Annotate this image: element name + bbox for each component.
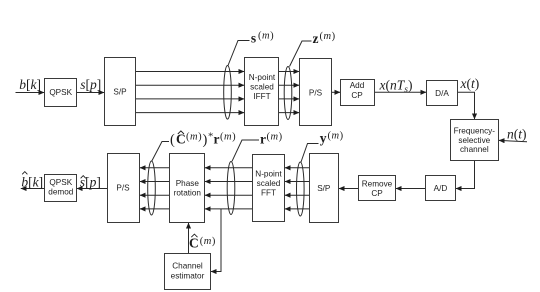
svg-text:S/P: S/P [113,88,127,97]
block P/S rx [108,154,140,223]
wire bus FFT to Phase rotation line 4 [205,208,253,210]
svg-text:rotation: rotation [174,188,202,197]
wire bus S/P to FFT line 4 [285,208,310,210]
block A/D [426,176,456,201]
svg-text:s[p]: s[p] [80,175,101,190]
svg-text:S/P: S/P [317,184,331,193]
wire bus tx line 4 [136,112,245,114]
wire bus tx line 1 [136,71,245,73]
wire bus IFFT to P/S line 2 [279,84,300,86]
wire A/D to Remove CP [396,188,426,190]
svg-text:Channel: Channel [172,262,203,271]
svg-text:(m): (m) [200,236,216,247]
ellipse bus rx3 [148,161,156,215]
ellipse bus tx1 [224,66,232,120]
wire bus tx line 2 [136,84,245,86]
wire input b[k] to QPSK [16,92,45,94]
svg-text:scaled: scaled [257,179,281,188]
wire tap to channel estimator [211,209,221,272]
wire noise n(t) into channel [499,140,527,141]
wire bus FFT to Phase rotation line 2 [205,181,253,183]
wire bus S/P to FFT line 2 [285,181,310,183]
leader line y(m) [301,144,319,163]
block P/S tx [300,59,332,126]
wire bus Phase rotation to P/S line 4 [140,208,170,210]
svg-text:x(nTs): x(nTs) [379,78,413,96]
svg-text:Add: Add [350,81,365,90]
svg-text:CP: CP [371,189,383,198]
ellipse bus rx1 [297,162,305,216]
svg-text:D/A: D/A [435,89,449,98]
wire bus Phase rotation to P/S line 2 [140,181,170,183]
svg-text:s[p]: s[p] [80,77,101,92]
svg-text:n(t): n(t) [507,127,527,142]
svg-text:(m): (m) [258,31,274,42]
wire P/S to Add CP [332,91,341,93]
svg-text:N-point: N-point [255,170,282,179]
wire channel to A/D [456,161,475,189]
wire QPSK to S/P [77,92,105,94]
svg-text:(m): (m) [267,132,283,143]
wire D/A to channel [458,92,475,119]
svg-text:z: z [313,31,319,46]
svg-text:QPSK: QPSK [49,88,72,97]
svg-text:s: s [251,30,256,45]
svg-text:b[k]: b[k] [19,77,41,92]
block QPSK [45,79,77,107]
leader line z(m) [290,41,312,67]
wire bus Phase rotation to P/S line 1 [140,167,170,169]
leader line r(m) [232,140,259,161]
wire bus IFFT to P/S line 1 [279,71,300,73]
svg-text:CP: CP [351,91,363,100]
svg-text:C: C [176,132,186,147]
svg-text:): ) [203,132,208,148]
svg-text:Remove: Remove [362,179,393,188]
svg-text:selective: selective [458,136,490,145]
svg-text:(: ( [170,132,175,148]
svg-text:demod: demod [48,188,73,197]
svg-text:Frequency-: Frequency- [454,127,496,136]
svg-text:channel: channel [460,145,489,154]
wire bus tx line 3 [136,98,245,100]
wire channel estimator to phase rotation [188,223,190,254]
wire bus IFFT to P/S line 3 [279,98,300,100]
block D/A [427,81,458,106]
svg-text:P/S: P/S [116,183,130,192]
ellipse bus tx2 [284,67,292,120]
svg-text:r: r [214,132,220,147]
block N-point scaled IFFT [245,58,279,126]
svg-text:A/D: A/D [434,184,448,193]
leader line s(m) [228,41,250,66]
wire bus FFT to Phase rotation line 1 [205,167,253,169]
wire bus IFFT to P/S line 4 [279,112,300,114]
block Channel estimator [165,254,211,290]
svg-text:Phase: Phase [176,179,200,188]
svg-text:N-point: N-point [249,73,276,82]
leader line C*r label [152,142,169,162]
wire bus FFT to Phase rotation line 3 [205,194,253,196]
svg-text:r: r [260,132,266,147]
wire bus Phase rotation to P/S line 3 [140,194,170,196]
svg-text:(m): (m) [220,132,236,143]
block Phase rotation [170,154,205,223]
block QPSK demod [45,175,77,202]
svg-text:b[k]: b[k] [21,175,43,190]
svg-text:QPSK: QPSK [49,178,72,187]
svg-text:IFFT: IFFT [253,92,270,101]
wire P/S to QPSK demod [77,188,108,190]
block Add CP [341,80,375,106]
wire Add CP to D/A [375,91,427,93]
ellipse bus rx2 [227,162,235,215]
block S/P rx [310,154,339,223]
wire bus S/P to FFT line 3 [285,194,310,196]
svg-text:scaled: scaled [250,82,274,91]
block N-point scaled FFT [253,155,285,222]
svg-text:FFT: FFT [261,189,276,198]
svg-text:(m): (m) [186,132,202,143]
svg-text:x(t): x(t) [460,76,480,91]
svg-text:(m): (m) [320,31,336,42]
svg-text:C: C [189,236,199,251]
block Remove CP [359,176,396,201]
block Frequency-selective channel [451,120,499,161]
svg-text:y: y [320,131,327,146]
wire Remove CP to S/P rx [339,188,359,190]
wire QPSK demod output [21,188,45,190]
wire bus S/P to FFT line 1 [285,167,310,169]
svg-text:estimator: estimator [171,272,205,281]
block S/P tx [105,58,136,126]
svg-text:P/S: P/S [309,88,323,97]
svg-text:(m): (m) [328,131,344,142]
